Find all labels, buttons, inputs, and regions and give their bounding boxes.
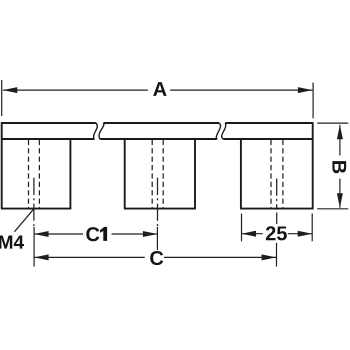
dimension C line right part (164, 256, 276, 258)
post 2 thread hidden line right (162, 140, 164, 208)
dimension A line left part (3, 89, 148, 91)
M4 leader line (14, 209, 34, 232)
dimension A line right part (170, 89, 312, 91)
post 3 centerline (276, 179, 278, 210)
extension line post1 centerline (C1/C left) (33, 227, 35, 267)
dimension B bottom arrowhead (337, 193, 343, 208)
dimension C line left part (34, 256, 145, 258)
dimension A right extension line (312, 83, 314, 119)
dimension B line upper part (339, 125, 341, 156)
dimension 25 line left part (242, 233, 263, 235)
post 2 centerline (157, 178, 159, 226)
label B (332, 161, 346, 173)
dimension 25 left extension line (241, 214, 243, 242)
post 1 bottom edge (1, 208, 71, 210)
post 1 right edge (69, 139, 71, 209)
dimension A right arrowhead (298, 87, 313, 93)
rail bar right end edge (312, 122, 314, 139)
dimension A left extension line (1, 80, 3, 116)
rail bar top edge segment 3 (225, 122, 312, 124)
dimension C1 line left part (34, 233, 83, 235)
dimension B bottom extension line (317, 208, 348, 210)
dimension B top extension line (317, 122, 348, 124)
dimension B line lower part (339, 179, 341, 208)
dimension A left arrowhead (3, 87, 17, 93)
rail bar top edge segment 2 (103, 122, 219, 124)
dimension 25 line right part (288, 233, 312, 235)
post 1 thread hidden line left (28, 140, 30, 208)
post 3 bottom edge (240, 208, 313, 210)
dimension B top arrowhead (337, 125, 343, 140)
post 2 left edge (124, 139, 126, 209)
label M4 (0, 236, 12, 249)
post 2 right edge (194, 139, 196, 209)
rail bar break 1 left curve (94, 123, 98, 140)
rail bar break 1 right curve (99, 123, 104, 140)
post 3 thread hidden line left (270, 140, 272, 208)
post 3 centerline segment above 25 label (276, 213, 278, 225)
dimension C1 left arrowhead (34, 231, 49, 237)
dimension 25 left arrowhead (242, 231, 257, 237)
label C (150, 251, 163, 265)
dimension C right arrowhead (262, 254, 277, 260)
rail bar bottom edge segment 1 (2, 138, 95, 140)
dimension 25 right extension line (311, 214, 313, 242)
rail bar top edge segment 1 (2, 122, 96, 124)
post 1 thread hidden line right (38, 140, 40, 208)
extension line post2 centerline (C1 right) (156, 227, 158, 250)
rail bar break 2 left curve (216, 123, 220, 139)
label A (153, 82, 166, 96)
dimension 25 right arrowhead (298, 231, 313, 237)
extension line below 25 label (C right) (276, 243, 278, 267)
rail bar left end edge (1, 122, 3, 139)
post 1 left edge (1, 139, 3, 209)
rail bar bottom edge segment 3 (223, 138, 312, 140)
post 3 left edge (240, 139, 242, 209)
rail bar break 2 right curve (222, 123, 226, 139)
rail bar bottom edge segment 2 (100, 138, 217, 140)
dimension C1 line right part (112, 233, 158, 235)
post 2 bottom edge (124, 208, 196, 210)
post 2 thread hidden line left (151, 140, 153, 208)
post 3 right edge (312, 139, 314, 209)
post 1 centerline (33, 178, 35, 226)
post 3 thread hidden line right (282, 140, 284, 208)
label C1 (86, 227, 99, 241)
dimension C left arrowhead (34, 254, 49, 260)
label 25 (266, 226, 276, 240)
dimension C1 right arrowhead (143, 231, 158, 237)
